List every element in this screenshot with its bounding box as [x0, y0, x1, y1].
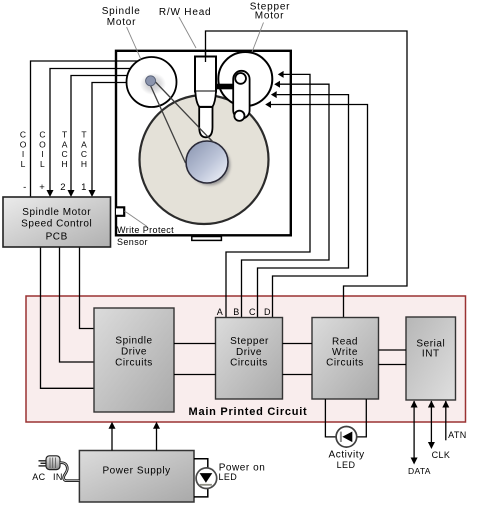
- leader R/W head: [179, 17, 196, 48]
- svg-text:C: C: [20, 130, 26, 140]
- activity LED wire right: [357, 399, 367, 437]
- svg-text:L: L: [40, 159, 45, 169]
- svg-text:IN: IN: [53, 472, 63, 482]
- wire spindle drive to stepper drive 1: [174, 343, 216, 345]
- svg-text:B: B: [233, 307, 239, 317]
- stepper phase wire B: [242, 84, 330, 317]
- svg-text:A: A: [81, 139, 87, 149]
- stepper phase wire A: [226, 74, 310, 317]
- svg-text:Sensor: Sensor: [117, 237, 148, 247]
- svg-text:Circuits: Circuits: [326, 358, 364, 369]
- svg-text:Power Supply: Power Supply: [102, 466, 170, 477]
- head connector tab: [192, 237, 222, 241]
- main printed circuit board box: [26, 296, 466, 422]
- svg-text:Drive: Drive: [121, 347, 147, 358]
- stepper drive circuits box: [216, 318, 283, 400]
- svg-text:Motor: Motor: [255, 11, 285, 22]
- svg-text:D: D: [264, 307, 271, 317]
- AC cord: [60, 463, 79, 481]
- spindle motor speed control PCB box: [3, 197, 111, 247]
- serial DATA wire: [413, 401, 415, 458]
- leader stepper motor: [252, 23, 264, 53]
- svg-text:LED: LED: [219, 472, 238, 482]
- wire spindle drive to stepper drive 2: [174, 374, 216, 376]
- power on LED: [196, 468, 217, 489]
- svg-text:DATA: DATA: [408, 466, 431, 476]
- activity LED wire left: [325, 399, 336, 437]
- svg-text:C: C: [81, 149, 87, 159]
- serial interface box: [406, 317, 456, 400]
- svg-text:+: +: [39, 182, 45, 193]
- wire stepper drive to read write 2: [283, 374, 313, 376]
- stepper motor: [218, 52, 272, 106]
- R/W head wire stub: [205, 50, 207, 62]
- wire PCB out 3 to spindle drive circuits: [80, 247, 95, 329]
- head to arm connector bar: [216, 84, 234, 90]
- spindle shaft halo: [140, 73, 166, 95]
- svg-text:T: T: [81, 130, 86, 140]
- svg-text:I: I: [41, 149, 43, 159]
- svg-text:A: A: [62, 139, 68, 149]
- svg-text:C: C: [39, 130, 45, 140]
- wire COIL+ from spindle motor to PCB: [50, 69, 145, 192]
- belt line 1: [155, 82, 213, 142]
- svg-text:I: I: [22, 149, 24, 159]
- svg-text:H: H: [81, 159, 87, 169]
- stepper arm capsule: [233, 71, 249, 119]
- serial ATN wire: [445, 401, 447, 440]
- disk hub shadow: [189, 144, 230, 185]
- svg-text:Spindle: Spindle: [115, 336, 152, 347]
- read write circuits box: [312, 318, 379, 400]
- svg-text:H: H: [62, 159, 68, 169]
- write protect sensor notch: [116, 207, 124, 216]
- svg-text:Main Printed Circuit: Main Printed Circuit: [189, 406, 308, 418]
- svg-text:ATN: ATN: [448, 430, 467, 440]
- svg-text:Spindle Motor: Spindle Motor: [22, 207, 91, 218]
- svg-text:Stepper: Stepper: [230, 336, 269, 347]
- svg-text:T: T: [62, 130, 67, 140]
- AC plug body: [46, 456, 60, 470]
- label TACH 2 (vertical): [60, 130, 68, 193]
- svg-text:Motor: Motor: [107, 17, 137, 28]
- stepper phase wire D: [271, 105, 368, 318]
- svg-text:A: A: [217, 307, 223, 317]
- belt line 2: [151, 86, 186, 164]
- power supply box: [79, 451, 194, 503]
- leader spindle motor: [127, 27, 141, 59]
- wire read write to serial 2: [379, 364, 407, 366]
- svg-text:L: L: [21, 159, 26, 169]
- floppy disk: [140, 95, 269, 224]
- svg-text:2: 2: [60, 182, 65, 193]
- svg-text:Write Protect: Write Protect: [117, 225, 174, 235]
- spindle shaft: [146, 76, 156, 86]
- svg-text:C: C: [62, 149, 68, 159]
- serial CLK wire: [430, 401, 432, 443]
- spindle motor: [127, 57, 177, 107]
- wire PCB out 2 to spindle drive circuits: [60, 247, 95, 362]
- AC plug prongs: [39, 461, 47, 466]
- R/W head body: [195, 57, 216, 92]
- svg-text:Drive: Drive: [236, 347, 262, 358]
- wire PCB out 1 to spindle drive circuits: [41, 247, 95, 388]
- svg-text:O: O: [20, 139, 27, 149]
- svg-text:Circuits: Circuits: [115, 358, 153, 369]
- spindle drive circuits box: [94, 308, 174, 412]
- label TACH 1 (vertical): [81, 130, 87, 193]
- stepper phase wire C: [258, 95, 349, 318]
- svg-text:-: -: [23, 182, 26, 193]
- svg-text:Speed Control: Speed Control: [21, 218, 92, 229]
- svg-text:Spindle: Spindle: [102, 6, 141, 17]
- wire COIL- from spindle motor to PCB: [31, 61, 146, 197]
- disk hub: [186, 141, 228, 183]
- wire TACH1 from spindle motor to PCB: [92, 83, 145, 192]
- wire read write to serial 1: [379, 349, 407, 351]
- belt line over head tip: [198, 127, 213, 142]
- wire R/W head to read write circuits: [206, 31, 408, 318]
- disk drive unit box: [116, 51, 291, 236]
- svg-text:CLK: CLK: [432, 450, 451, 460]
- arm pivot top: [235, 73, 246, 84]
- arm pivot bottom: [234, 111, 244, 121]
- power wire 1 to main board: [111, 428, 113, 451]
- svg-text:Circuits: Circuits: [230, 358, 268, 369]
- activity LED: [336, 427, 357, 448]
- wire TACH2 from spindle motor to PCB: [71, 76, 145, 192]
- svg-text:C: C: [249, 307, 256, 317]
- R/W head taper and slider: [195, 92, 216, 107]
- svg-text:LED: LED: [337, 460, 356, 470]
- leader write protect: [125, 211, 148, 227]
- power on LED bracket: [194, 459, 208, 497]
- label COIL + (vertical): [39, 130, 46, 193]
- svg-text:O: O: [39, 139, 46, 149]
- power wire 2 to main board: [156, 428, 158, 451]
- svg-text:PCB: PCB: [46, 231, 68, 242]
- wire stepper drive to read write 1: [283, 343, 313, 345]
- svg-text:Write: Write: [332, 347, 358, 358]
- svg-text:R/W Head: R/W Head: [159, 7, 212, 18]
- svg-text:1: 1: [81, 182, 86, 193]
- svg-text:INT: INT: [422, 349, 440, 360]
- svg-text:Read: Read: [332, 337, 358, 348]
- label COIL - (vertical): [20, 130, 27, 193]
- svg-text:AC: AC: [32, 472, 45, 482]
